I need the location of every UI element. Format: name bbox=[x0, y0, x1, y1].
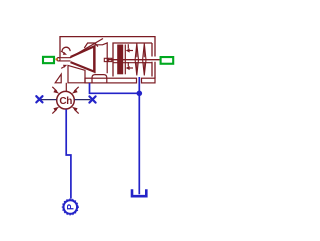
coupler squares bbox=[104, 58, 112, 61]
port P green bbox=[43, 57, 54, 63]
port T green bbox=[161, 57, 174, 64]
wire Ch to sensor bbox=[66, 109, 71, 198]
gauge arrow SE bbox=[72, 107, 79, 114]
force arrow upper bbox=[126, 48, 133, 52]
gauge arrow SW bbox=[52, 107, 59, 114]
valve V1 bottom bar left bbox=[85, 78, 137, 83]
spring S1 bbox=[135, 43, 138, 75]
terminator X left bbox=[36, 96, 42, 102]
solenoid housing U1 inner box bbox=[113, 43, 152, 77]
wire drain to junction bbox=[90, 83, 140, 93]
gauge Ch circle bbox=[57, 91, 75, 109]
valve V1 bottom bar right bbox=[142, 78, 156, 83]
valve seat foot bbox=[92, 75, 107, 83]
pole ticks bbox=[127, 44, 129, 66]
piston chamber bbox=[95, 43, 107, 73]
seat arrow lower bbox=[61, 65, 67, 69]
sensor P circle bbox=[64, 200, 78, 214]
nozzle seat bbox=[57, 58, 71, 61]
gauge Ch label bbox=[59, 96, 72, 107]
sensor P label bbox=[65, 204, 75, 210]
port line P bbox=[56, 58, 59, 60]
svg-text:Ch: Ch bbox=[59, 96, 72, 107]
gauge arrow NW bbox=[52, 87, 59, 94]
sensor P outer ring dashed bbox=[62, 199, 78, 215]
variability arrow step bbox=[84, 43, 98, 48]
pushrod channel lower line bbox=[113, 62, 152, 64]
stub line right bbox=[74, 99, 90, 101]
solenoid armature filled bbox=[117, 45, 123, 75]
valve V1 outer box right edge bbox=[154, 36, 156, 78]
pilot stem bbox=[65, 83, 67, 91]
pushrod channel upper line bbox=[108, 59, 160, 61]
pilot wedge bbox=[68, 65, 85, 82]
seat arrow upper bbox=[61, 51, 67, 55]
adjustment knob arc bbox=[62, 47, 70, 51]
poppet cone bbox=[71, 46, 95, 71]
force arrow lower bbox=[126, 66, 133, 70]
tank T1 bbox=[132, 189, 146, 196]
pilot ramp triangle bbox=[55, 74, 61, 83]
terminator X right bbox=[89, 96, 95, 102]
variability arrow shaft bbox=[70, 39, 103, 58]
wire junction to valve bbox=[138, 77, 140, 93]
wire junction to tank bbox=[138, 93, 140, 194]
junction dot bbox=[137, 91, 143, 97]
armature face line bbox=[124, 45, 126, 75]
gauge arrow NE bbox=[72, 87, 79, 94]
valve V1 outer box top edge bbox=[60, 36, 155, 38]
spring S2 bbox=[143, 43, 146, 75]
svg-text:P: P bbox=[65, 204, 75, 210]
stub line left bbox=[40, 99, 57, 101]
valve V1 outer box left edge bbox=[59, 36, 61, 57]
